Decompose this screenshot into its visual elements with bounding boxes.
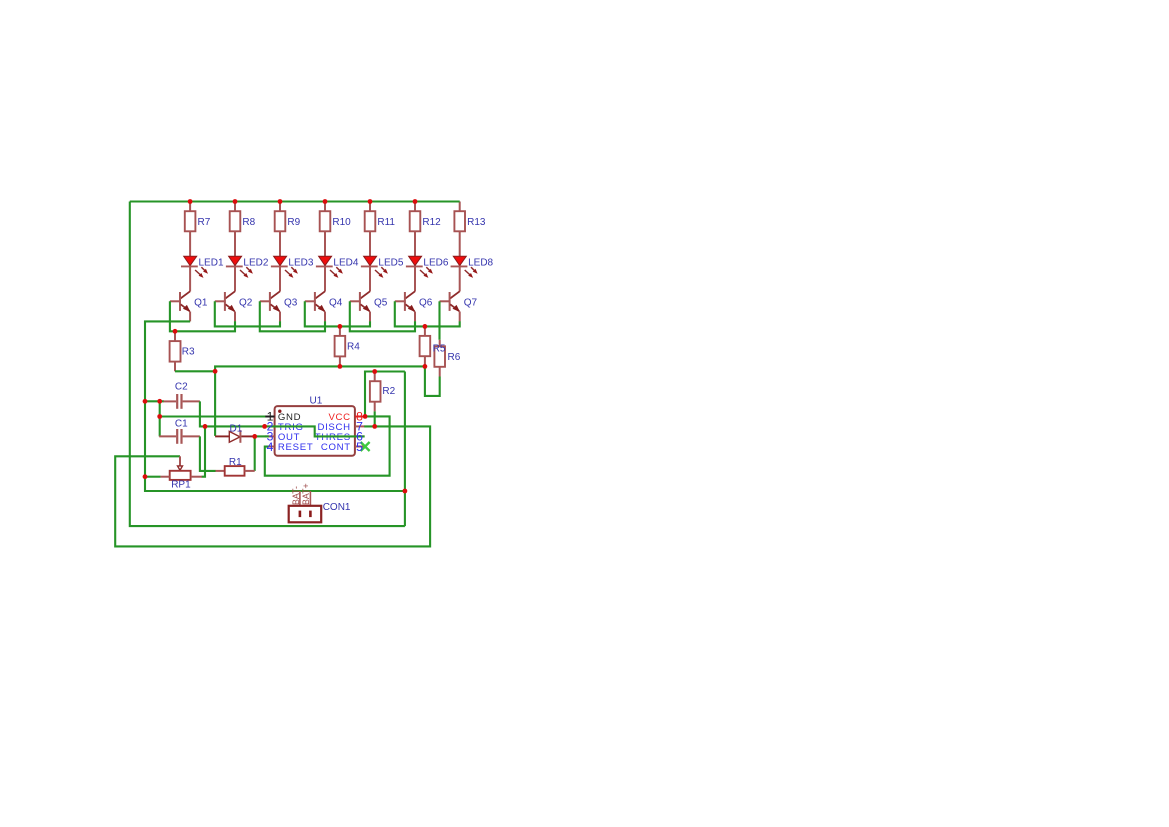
wire VCC top rail <box>130 200 460 202</box>
wire Q5 base to Q6 emitter <box>350 301 415 331</box>
svg-text:R4: R4 <box>347 341 360 352</box>
no-connect CONT pin <box>361 442 370 451</box>
svg-text:5: 5 <box>356 440 363 454</box>
svg-text:LED3: LED3 <box>288 257 313 268</box>
wire junction down to D1 anode <box>214 371 216 436</box>
svg-text:RESET: RESET <box>278 442 314 453</box>
svg-text:R1: R1 <box>229 457 242 468</box>
svg-text:LED2: LED2 <box>243 257 268 268</box>
svg-text:U1: U1 <box>310 395 323 406</box>
wire VCC bus to R2 top <box>365 372 405 417</box>
LED LED8 <box>451 256 478 291</box>
svg-text:R7: R7 <box>198 217 211 228</box>
svg-text:BAT+: BAT+ <box>301 483 311 505</box>
wire GND rail corner to BAT row <box>145 477 405 491</box>
resistor R9 <box>275 202 286 257</box>
svg-text:LED1: LED1 <box>199 257 224 268</box>
svg-text:R5: R5 <box>433 343 446 354</box>
wire Q2 base to Q3 emitter <box>215 301 280 326</box>
wire R3 bottom to junction <box>175 370 215 372</box>
wire OUT down to R1 right <box>254 436 256 471</box>
LED LED6 <box>406 256 433 291</box>
potentiometer RP1 <box>160 456 202 480</box>
wire C1 right down to R1 left <box>200 436 216 471</box>
resistor R8 <box>230 202 241 257</box>
svg-text:BAT-: BAT- <box>291 486 301 505</box>
wire Q7 base down to R6 <box>438 301 440 340</box>
wire rail to C2 <box>145 400 164 402</box>
svg-text:Q6: Q6 <box>419 297 433 308</box>
LED LED5 <box>361 256 388 291</box>
wire R5 bottom to R6 bottom <box>425 366 440 396</box>
wire C2 right to TRIG <box>200 401 205 426</box>
LED LED2 <box>226 256 253 291</box>
connector CON1 <box>289 491 322 522</box>
svg-text:Q4: Q4 <box>329 297 343 308</box>
LED LED4 <box>316 256 343 291</box>
resistor R1 <box>216 466 255 476</box>
transistor Q4 <box>305 291 326 321</box>
transistor Q1 <box>170 291 191 321</box>
svg-text:LED6: LED6 <box>423 257 448 268</box>
resistor R11 <box>365 202 376 257</box>
wire Q1 base to Q2 emitter <box>170 301 235 331</box>
wire TRIG row into THRES <box>205 426 365 436</box>
svg-text:Q2: Q2 <box>239 297 253 308</box>
wire right vertical VCC return <box>404 372 406 527</box>
resistor R5 <box>420 326 431 366</box>
transistor Q6 <box>395 291 416 321</box>
svg-text:LED5: LED5 <box>378 257 403 268</box>
transistor Q2 <box>215 291 236 321</box>
wire TRIG down to RP1 right <box>202 426 206 476</box>
svg-text:RP1: RP1 <box>171 480 191 491</box>
transistor Q3 <box>260 291 281 321</box>
svg-text:R8: R8 <box>242 217 255 228</box>
wire Q6 base to Q7 emitter <box>395 301 460 326</box>
svg-text:D1: D1 <box>230 423 243 434</box>
svg-text:R10: R10 <box>332 217 351 228</box>
wire Q4 base to Q5 emitter <box>305 301 370 326</box>
svg-text:R6: R6 <box>448 352 461 363</box>
wire VCC pin8 loop to RESET/TRIG <box>265 416 390 475</box>
resistor R2 <box>370 372 381 412</box>
svg-text:R9: R9 <box>287 217 300 228</box>
capacitor C1 <box>159 429 200 444</box>
svg-text:R3: R3 <box>182 347 195 358</box>
wire R-bottom bus <box>215 366 425 371</box>
wire C2-left down to C1 <box>159 401 161 436</box>
svg-text:LED4: LED4 <box>333 257 358 268</box>
svg-text:Q3: Q3 <box>284 297 298 308</box>
resistor R13 <box>454 202 465 257</box>
svg-text:R11: R11 <box>377 217 395 228</box>
capacitor C2 <box>164 394 200 409</box>
svg-text:Q5: Q5 <box>374 297 388 308</box>
wire OUT row <box>255 435 269 437</box>
svg-text:R13: R13 <box>467 217 486 228</box>
resistor R12 <box>410 202 421 257</box>
junction dots <box>143 199 428 493</box>
LED LED1 <box>181 256 208 291</box>
resistor R4 <box>335 326 346 366</box>
svg-text:4: 4 <box>267 440 274 454</box>
transistor Q7 <box>440 291 461 321</box>
svg-text:R2: R2 <box>382 386 395 397</box>
diode D1 <box>215 430 255 443</box>
svg-text:CONT: CONT <box>321 442 351 453</box>
wire GND row to U1 pin1 <box>160 415 266 417</box>
wire RP1 left to rail <box>145 476 160 478</box>
op-amp U1 555 timer <box>265 406 365 456</box>
transistor Q5 <box>350 291 371 321</box>
svg-text:C2: C2 <box>175 381 188 392</box>
wire R2 bottom to DISCH <box>374 411 376 426</box>
resistor R3 <box>170 331 181 371</box>
resistor R6 <box>434 340 445 377</box>
wire left rail down to bottom <box>130 202 405 527</box>
svg-text:C1: C1 <box>175 419 188 430</box>
wire DISCH to bottom right rail <box>115 426 430 546</box>
resistor R7 <box>185 202 196 257</box>
svg-text:Q1: Q1 <box>194 297 208 308</box>
LED LED3 <box>271 256 298 291</box>
wire Q3 base to Q4 emitter <box>260 301 325 331</box>
svg-text:CON1: CON1 <box>323 502 351 513</box>
svg-text:R12: R12 <box>422 217 441 228</box>
resistor R10 <box>320 202 331 257</box>
svg-text:Q7: Q7 <box>464 297 478 308</box>
svg-text:LED8: LED8 <box>468 257 493 268</box>
wire Q1 emitter to GND rail <box>145 321 190 476</box>
